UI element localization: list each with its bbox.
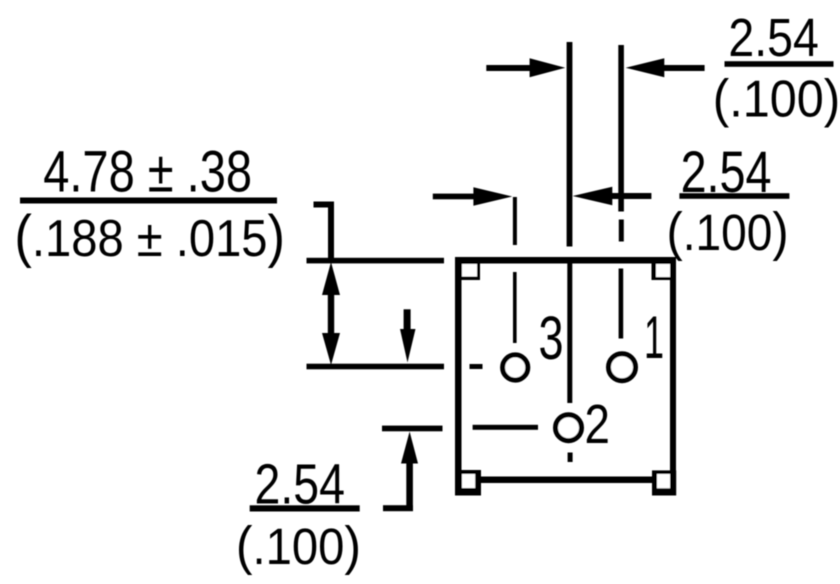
top dimension arrow right	[626, 58, 705, 77]
dash left of pin3 inside box	[470, 364, 483, 369]
svg-text:4.78 ± .38: 4.78 ± .38	[43, 140, 252, 205]
pin 2 pad	[556, 415, 582, 441]
mid dimension arrow left	[433, 187, 513, 205]
pin 3 pad	[503, 355, 528, 380]
pin1 centerline dash	[619, 220, 624, 242]
corner standoff top-left	[455, 257, 480, 280]
extension line pin2 level	[382, 426, 443, 432]
horizontal line at pin2 level inside box	[473, 425, 538, 430]
svg-text:3: 3	[539, 304, 564, 372]
svg-text:1: 1	[644, 305, 664, 372]
pin 1 pad	[609, 354, 636, 381]
top dimension arrow left	[486, 58, 565, 77]
fraction bar top-right	[725, 61, 834, 67]
svg-text:2.54: 2.54	[681, 140, 772, 205]
extension line top (box top level)	[307, 258, 445, 264]
extension line pin3 level	[307, 364, 445, 370]
fraction bar bottom-left	[250, 505, 360, 511]
pin1 centerline inside box	[619, 269, 624, 339]
svg-text:2.54: 2.54	[728, 7, 818, 68]
centerline pin2 dash below pad	[568, 453, 573, 463]
fraction bar right-mid	[679, 193, 789, 199]
dimension double arrow 4.78	[322, 262, 340, 365]
centerline pin2 vertical above box	[567, 42, 573, 247]
svg-text:2.54: 2.54	[255, 453, 345, 517]
pin3 centerline above box	[513, 197, 517, 245]
fraction bar left	[20, 198, 277, 204]
down arrow at pin3 extension	[400, 309, 416, 362]
svg-text:(.188 ± .015): (.188 ± .015)	[14, 204, 285, 269]
leader for 4.78 dimension	[314, 202, 335, 261]
svg-text:(.100): (.100)	[666, 201, 788, 262]
centerline pin2 vertical inside box	[567, 264, 572, 404]
svg-text:(.100): (.100)	[236, 516, 361, 576]
mid dimension arrow right	[573, 187, 652, 205]
corner standoff bottom-right	[652, 470, 676, 495]
svg-text:(.100): (.100)	[713, 69, 840, 128]
pin3 centerline inside box	[513, 272, 517, 343]
svg-text:2: 2	[585, 393, 610, 455]
corner standoff bottom-left	[455, 470, 481, 496]
corner standoff top-right	[652, 257, 677, 280]
up arrow at pin2 extension (2.54 bottom dimension)	[383, 432, 418, 512]
component outline (trimmer body, bottom view)	[455, 257, 676, 496]
pin1 centerline above box solid	[618, 45, 624, 212]
